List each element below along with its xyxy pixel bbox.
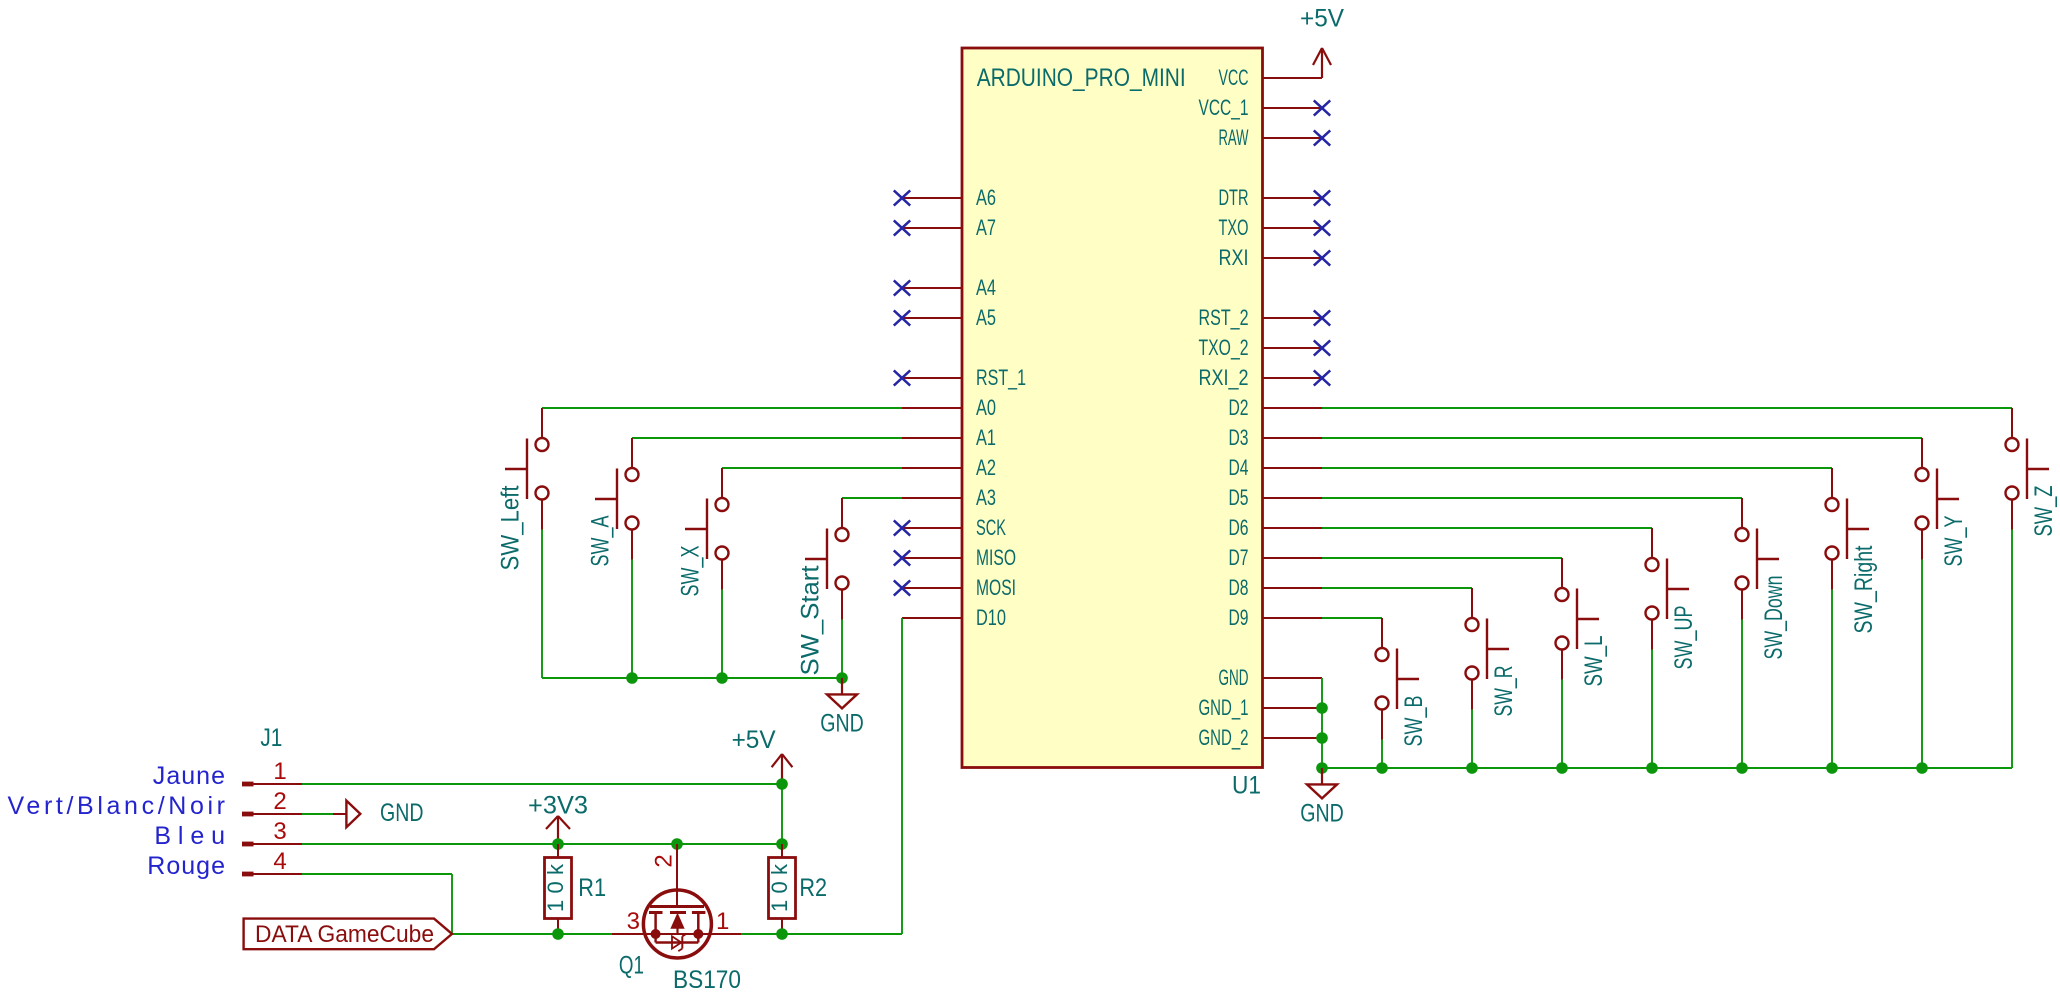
svg-text:DATA GameCube: DATA GameCube [255, 921, 434, 948]
svg-text:D5: D5 [1229, 485, 1249, 510]
svg-text:Rouge: Rouge [147, 852, 225, 880]
svg-text:SW_Start: SW_Start [797, 565, 825, 675]
svg-text:2: 2 [651, 854, 678, 867]
svg-text:3: 3 [627, 908, 640, 935]
svg-text:Jaune: Jaune [153, 762, 225, 790]
svg-text:Vert/Blanc/Noir: Vert/Blanc/Noir [8, 792, 226, 820]
svg-text:SW_Y: SW_Y [1940, 515, 1968, 566]
svg-text:D6: D6 [1229, 515, 1249, 540]
svg-text:2: 2 [273, 788, 286, 815]
svg-text:D3: D3 [1229, 425, 1249, 450]
svg-text:RST_2: RST_2 [1199, 305, 1249, 330]
svg-text:J1: J1 [260, 724, 282, 752]
svg-text:A7: A7 [976, 215, 996, 240]
svg-text:R2: R2 [799, 874, 827, 902]
svg-text:D2: D2 [1229, 395, 1249, 420]
svg-text:SW_Z: SW_Z [2030, 486, 2058, 537]
svg-text:D4: D4 [1229, 455, 1249, 480]
svg-text:RAW: RAW [1219, 125, 1249, 150]
svg-text:MOSI: MOSI [976, 575, 1016, 600]
svg-text:4: 4 [273, 848, 286, 875]
svg-text:RXI: RXI [1219, 245, 1249, 270]
svg-text:SW_R: SW_R [1490, 666, 1518, 717]
svg-text:GND_1: GND_1 [1199, 695, 1249, 720]
svg-text:3: 3 [273, 818, 286, 845]
svg-text:TXO_2: TXO_2 [1199, 335, 1249, 360]
svg-text:A4: A4 [976, 275, 996, 300]
svg-text:D8: D8 [1229, 575, 1249, 600]
svg-text:TXO: TXO [1219, 215, 1249, 240]
svg-text:A0: A0 [976, 395, 996, 420]
svg-text:SW_L: SW_L [1580, 635, 1608, 686]
svg-text:A3: A3 [976, 485, 996, 510]
svg-text:D9: D9 [1229, 605, 1249, 630]
svg-text:D7: D7 [1229, 545, 1249, 570]
svg-text:+5V: +5V [1300, 5, 1344, 33]
svg-text:ARDUINO_PRO_MINI: ARDUINO_PRO_MINI [977, 64, 1186, 92]
svg-text:SW_X: SW_X [677, 545, 705, 596]
svg-text:VCC_1: VCC_1 [1199, 95, 1249, 120]
svg-text:A5: A5 [976, 305, 996, 330]
svg-text:RST_1: RST_1 [976, 365, 1026, 390]
svg-text:A1: A1 [976, 425, 996, 450]
svg-text:+5V: +5V [732, 726, 776, 754]
svg-text:DTR: DTR [1219, 185, 1249, 210]
svg-text:SW_UP: SW_UP [1670, 606, 1698, 670]
svg-text:10k: 10k [543, 863, 568, 912]
svg-text:D10: D10 [976, 605, 1006, 630]
svg-text:Bleu: Bleu [154, 822, 225, 850]
svg-text:RXI_2: RXI_2 [1199, 365, 1249, 390]
svg-text:SW_Right: SW_Right [1850, 545, 1878, 633]
svg-text:1: 1 [716, 908, 729, 935]
svg-text:1: 1 [273, 758, 286, 785]
svg-text:SW_B: SW_B [1400, 696, 1428, 747]
svg-text:SCK: SCK [976, 515, 1006, 540]
svg-text:+3V3: +3V3 [528, 791, 588, 819]
svg-text:U1: U1 [1232, 772, 1261, 800]
svg-text:MISO: MISO [976, 545, 1016, 570]
svg-text:A2: A2 [976, 455, 996, 480]
svg-text:A6: A6 [976, 185, 996, 210]
svg-text:GND: GND [380, 799, 424, 827]
svg-text:GND: GND [1219, 665, 1249, 690]
svg-text:R1: R1 [578, 874, 606, 902]
svg-text:SW_Left: SW_Left [497, 485, 525, 570]
svg-text:SW_Down: SW_Down [1760, 576, 1788, 660]
svg-text:SW_A: SW_A [587, 515, 615, 566]
svg-text:Q1: Q1 [619, 952, 644, 980]
svg-text:VCC: VCC [1219, 65, 1249, 90]
svg-text:10k: 10k [767, 863, 792, 912]
svg-text:GND: GND [1300, 800, 1344, 828]
svg-text:GND_2: GND_2 [1199, 725, 1249, 750]
svg-text:GND: GND [820, 710, 864, 738]
svg-text:BS170: BS170 [673, 966, 741, 994]
